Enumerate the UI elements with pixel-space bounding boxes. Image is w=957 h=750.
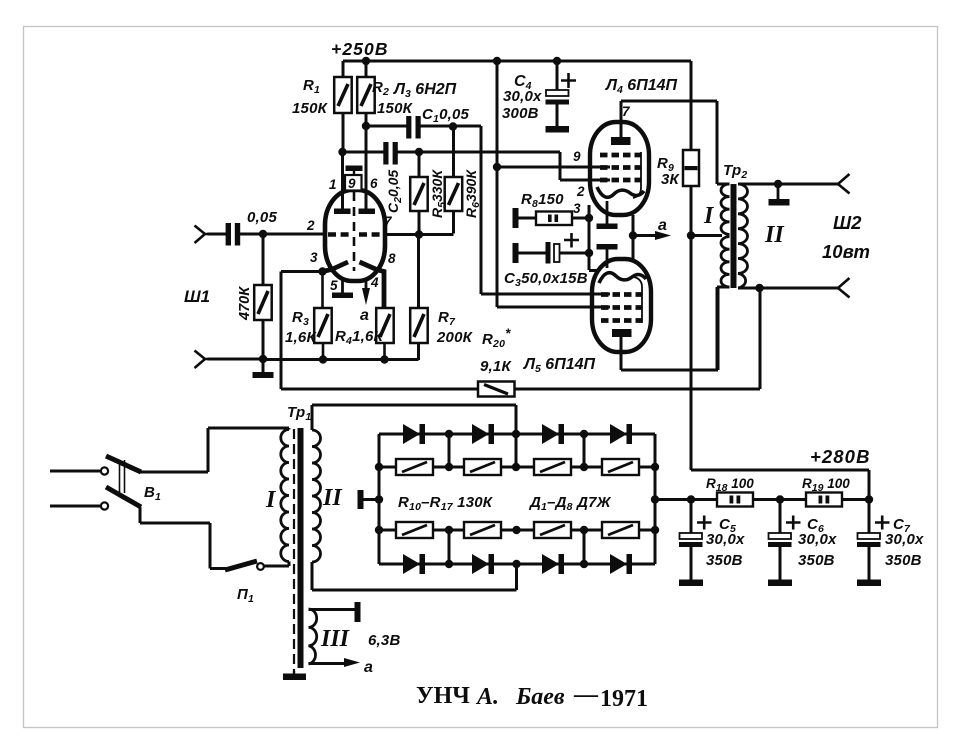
diode D2 xyxy=(472,424,494,444)
output connector arrow bottom xyxy=(838,278,850,298)
svg-text:2: 2 xyxy=(576,184,585,199)
wire filter line xyxy=(655,498,717,501)
bridge nodes top xyxy=(375,430,659,471)
resistor R8 150 xyxy=(513,208,590,228)
anode plate L4 xyxy=(611,137,631,145)
svg-text:R7: R7 xyxy=(438,309,456,328)
ground pin5 xyxy=(332,280,353,298)
wire pin9 L4 xyxy=(497,166,610,169)
tube U Л5 6П14П envelope xyxy=(592,259,651,352)
node R1-C2 junction xyxy=(338,148,346,156)
wire screen feed vertical xyxy=(497,61,610,307)
bridge resistor row2 wire xyxy=(379,529,655,532)
ground secondary xyxy=(769,184,790,206)
wire secondary bottom xyxy=(738,287,838,290)
resistor R1 150K xyxy=(334,61,352,152)
node rail-screen xyxy=(493,57,501,65)
bridge right vertical xyxy=(654,434,657,564)
node 470K-common xyxy=(259,355,267,363)
resistor R14 xyxy=(396,522,433,538)
node screen-pin9 xyxy=(493,163,501,171)
svg-text:R1: R1 xyxy=(303,77,320,96)
capacitor C1 0,05 xyxy=(366,116,481,139)
svg-text:3: 3 xyxy=(573,201,581,216)
svg-text:9,1К: 9,1К xyxy=(480,358,512,375)
svg-text:R3: R3 xyxy=(292,309,309,328)
pin labels L4 xyxy=(573,104,631,216)
capacitor C4 30,0x300B xyxy=(546,61,577,126)
svg-text:10вт: 10вт xyxy=(822,241,870,262)
svg-text:II: II xyxy=(322,485,343,511)
switch B1 link dashes xyxy=(120,460,125,493)
svg-text:Д1–Д8 Д7Ж: Д1–Д8 Д7Ж xyxy=(528,494,612,513)
wire mains bottom xyxy=(50,505,100,508)
grid rows L5 xyxy=(601,295,642,321)
svg-text:Тр2: Тр2 xyxy=(723,162,747,181)
wire secondary II top xyxy=(312,405,516,430)
svg-text:R20*: R20* xyxy=(482,326,511,350)
bridge nodes bottom xyxy=(375,526,659,568)
resistor R19 100 xyxy=(806,493,869,507)
svg-text:150К: 150К xyxy=(292,100,329,117)
transformer Tp1 core bar xyxy=(298,428,304,668)
output connector arrow top xyxy=(838,174,850,194)
wire pin7 anode L4 xyxy=(621,101,717,140)
svg-text:350В: 350В xyxy=(885,552,922,569)
resistor R20 9,1K xyxy=(478,382,515,397)
capacitor C5 30,0x350B xyxy=(679,500,712,581)
input connector arrow bottom xyxy=(195,351,209,369)
svg-text:6,3В: 6,3В xyxy=(368,632,401,649)
fuse P1 circle xyxy=(257,563,264,570)
bridge bottom diode row wire xyxy=(379,563,655,566)
svg-text:5: 5 xyxy=(330,278,338,293)
svg-text:1971: 1971 xyxy=(600,686,648,712)
ground C7 xyxy=(857,580,881,587)
ground input xyxy=(253,359,274,378)
svg-text:6: 6 xyxy=(370,176,378,191)
transformer Tp1 secondary II winding xyxy=(312,430,321,562)
resistor 470K xyxy=(254,234,272,359)
svg-text:А.: А. xyxy=(475,684,499,710)
svg-text:8: 8 xyxy=(388,251,396,266)
svg-text:II: II xyxy=(764,222,785,248)
svg-text:4: 4 xyxy=(370,275,379,290)
shield dashed line xyxy=(353,192,356,271)
resistor R6 390K xyxy=(445,126,463,234)
ground C4 xyxy=(546,126,570,133)
transformer Tp1 core dashed xyxy=(293,429,295,671)
svg-text:30,0х: 30,0х xyxy=(503,88,542,105)
diode D3 xyxy=(542,424,564,444)
ground C6 xyxy=(768,580,792,587)
svg-text:III: III xyxy=(320,626,351,652)
diode D5 xyxy=(403,554,425,574)
svg-text:1: 1 xyxy=(329,177,337,192)
svg-text:30,0х: 30,0х xyxy=(885,531,924,548)
node C5 xyxy=(687,495,695,503)
heater pin4 arrow a xyxy=(362,280,370,305)
wire plus280 xyxy=(691,470,869,500)
svg-text:R8150: R8150 xyxy=(521,191,564,210)
bridge mid vertical bottom left xyxy=(448,530,451,564)
svg-text:I: I xyxy=(703,203,715,229)
node rail-C4 xyxy=(553,57,561,65)
tube U Л3 6Н2П envelope xyxy=(325,190,385,281)
bridge left vertical xyxy=(378,434,381,564)
resistor R5 330K xyxy=(410,152,428,235)
node R3-common xyxy=(319,355,327,363)
node C6 xyxy=(776,495,784,503)
svg-text:С10,05: С10,05 xyxy=(422,106,470,125)
terminal circle top xyxy=(101,467,108,474)
wire heater link a xyxy=(632,215,635,261)
node cathode1-R3 xyxy=(318,267,326,275)
svg-text:Баев: Баев xyxy=(515,684,565,710)
transformer Tp2 secondary II winding xyxy=(738,184,748,288)
capacitor C6 30,0x350B xyxy=(768,500,801,581)
wire mains top xyxy=(50,470,100,473)
svg-text:Л5 6П14П: Л5 6П14П xyxy=(523,356,595,375)
bridge AC1 vertical xyxy=(515,405,518,467)
anode plate L5 xyxy=(612,329,632,337)
diode D1 xyxy=(403,424,425,444)
resistor R18 100 xyxy=(717,493,806,507)
input connector arrow top xyxy=(195,226,209,244)
svg-text:I: I xyxy=(265,487,277,513)
transformer Tp2 primary I winding xyxy=(721,184,730,287)
wire +250V rail xyxy=(343,60,691,63)
bridge top diode row wire xyxy=(379,433,655,436)
wire switch bottom to fuse xyxy=(140,507,226,569)
wire secondary II bottom xyxy=(312,562,517,590)
svg-text:a: a xyxy=(364,659,373,676)
bridge resistor row1 wire xyxy=(379,466,655,469)
resistor R13 xyxy=(602,459,639,475)
wire primary top xyxy=(717,101,730,184)
svg-text:R19 100: R19 100 xyxy=(802,476,850,494)
wire winding III bottom xyxy=(309,662,346,665)
node C2-R5 xyxy=(415,148,423,156)
svg-text:УНЧ: УНЧ xyxy=(416,683,470,709)
svg-text:350В: 350В xyxy=(798,552,835,569)
anode plate pin1 xyxy=(334,152,351,214)
grid dashed row xyxy=(328,232,382,237)
node secondary ground xyxy=(774,180,782,188)
diode D4 xyxy=(610,424,632,444)
ground bridge minus xyxy=(358,490,380,509)
transformer Tp1 primary I winding xyxy=(281,428,289,562)
capacitor C2 0,05 xyxy=(343,142,561,165)
svg-text:R18 100: R18 100 xyxy=(706,476,754,494)
bridge mid vertical top right xyxy=(583,434,586,467)
wire winding III top xyxy=(309,608,356,611)
transformer Tp1 winding III xyxy=(309,609,317,664)
wire triode2 grid (pin7) xyxy=(385,233,454,236)
svg-text:Л3 6Н2П: Л3 6Н2П xyxy=(393,81,457,100)
svg-text:+280В: +280В xyxy=(810,446,871,467)
terminal circle bottom xyxy=(101,502,108,509)
node bridge plus xyxy=(651,495,659,503)
svg-text:300В: 300В xyxy=(502,105,539,122)
svg-text:R2: R2 xyxy=(372,79,389,98)
node rail-R2 xyxy=(362,57,370,65)
resistor R10 xyxy=(396,459,433,475)
svg-text:30,0х: 30,0х xyxy=(706,531,745,548)
svg-text:Л4 6П14П: Л4 6П14П xyxy=(605,77,677,96)
svg-text:9: 9 xyxy=(348,176,356,191)
tube U Л4 6П14П envelope xyxy=(590,122,649,215)
svg-text:R10–R17 130К: R10–R17 130К xyxy=(398,494,494,513)
ground shield pin9 top bar xyxy=(346,166,363,176)
cathode wave L4 xyxy=(597,187,644,197)
fuse P1 blade xyxy=(225,561,257,570)
svg-text:7: 7 xyxy=(622,104,631,119)
capacitor C7 30,0x350B xyxy=(857,500,890,581)
wire anode L5 to transformer xyxy=(621,288,718,370)
cathode pin8 with lead xyxy=(360,262,385,308)
switch B1 blade top xyxy=(106,456,141,472)
ground C5 xyxy=(679,580,703,587)
svg-text:С350,0х15В: С350,0х15В xyxy=(504,270,588,289)
diode D8 xyxy=(610,554,632,574)
svg-text:—: — xyxy=(573,682,599,708)
svg-text:R6390К: R6390К xyxy=(463,169,482,218)
resistor R12 xyxy=(534,459,571,475)
wire center tap xyxy=(691,234,722,237)
cathode bar L5 xyxy=(597,244,618,268)
svg-text:3К: 3К xyxy=(661,171,681,188)
svg-text:+250В: +250В xyxy=(331,39,389,59)
svg-text:350В: 350В xyxy=(706,552,743,569)
svg-text:30,0х: 30,0х xyxy=(798,531,837,548)
svg-text:Тр1: Тр1 xyxy=(287,404,311,423)
wire secondary top xyxy=(738,183,838,186)
svg-text:Ш2: Ш2 xyxy=(833,212,862,233)
svg-text:В1: В1 xyxy=(144,484,161,503)
node C3-cathode xyxy=(585,249,593,257)
grid rows L4 xyxy=(600,155,641,180)
svg-text:150К: 150К xyxy=(377,100,414,117)
resistor R15 xyxy=(464,522,501,538)
resistor R9 3K xyxy=(683,61,699,470)
wire primary bottom xyxy=(717,287,730,370)
node R2-C1 junction xyxy=(362,122,370,130)
ground Tp1 core xyxy=(283,671,306,680)
transformer Tp2 core xyxy=(731,184,737,288)
node C1-R6 xyxy=(449,122,457,130)
node input-470K xyxy=(259,230,267,238)
svg-text:a: a xyxy=(658,217,667,234)
wire switch top to Tp1 xyxy=(140,428,289,472)
bridge mid vertical bottom right xyxy=(583,530,586,564)
resistor R2 150K xyxy=(357,61,375,126)
bridge mid vertical top left xyxy=(448,434,451,467)
svg-text:3: 3 xyxy=(310,250,318,265)
switch B1 blade bottom xyxy=(106,487,141,507)
svg-text:7: 7 xyxy=(384,214,393,229)
internal beam line L5 xyxy=(634,277,642,323)
svg-text:470К: 470К xyxy=(237,286,253,321)
arrow heater a xyxy=(633,231,671,240)
svg-text:1,6К: 1,6К xyxy=(285,329,317,346)
node secondary feedback xyxy=(755,284,763,292)
arrow heater a bottom xyxy=(344,658,360,667)
wire fuse to winding xyxy=(264,562,289,567)
cathode pin3 with lead xyxy=(323,262,349,272)
wire feedback loop xyxy=(281,272,760,390)
wire grid L5 from C1 xyxy=(481,126,610,294)
resistor R16 xyxy=(534,522,571,538)
svg-text:a: a xyxy=(360,307,369,324)
resistor R17 xyxy=(602,522,639,538)
capacitor C3 50,0x15B xyxy=(513,233,590,264)
capacitor input 0,05 xyxy=(208,223,326,246)
svg-text:С20,05: С20,05 xyxy=(385,170,404,213)
node heater a xyxy=(629,231,637,239)
resistor R11 xyxy=(464,459,501,475)
diode D6 xyxy=(472,554,494,574)
svg-text:2: 2 xyxy=(306,218,315,233)
pin 9 box xyxy=(345,175,362,191)
svg-text:200К: 200К xyxy=(436,329,474,346)
node C7 plus280 xyxy=(865,495,873,503)
wire cathode bus xyxy=(589,205,597,271)
node R8-cathode xyxy=(585,214,593,222)
node R4-common xyxy=(380,355,388,363)
diode D7 xyxy=(542,554,564,574)
node bridge minus xyxy=(375,495,383,503)
resistor R7 200K xyxy=(410,235,428,361)
internal beam line L4 xyxy=(633,152,641,198)
wire common bottom line xyxy=(208,358,419,362)
cathode wave L5 xyxy=(599,273,646,283)
resistor R3 1,6K xyxy=(314,272,332,360)
svg-text:R41,6К: R41,6К xyxy=(335,328,385,347)
ground winding III terminal xyxy=(355,602,361,622)
svg-text:0,05: 0,05 xyxy=(247,209,277,226)
node center tap xyxy=(687,231,695,239)
anode plate pin6 xyxy=(359,126,376,214)
pin labels L3 xyxy=(306,176,396,293)
resistor R4 1,6K xyxy=(376,308,394,360)
cathode stem and bar L4 xyxy=(597,201,618,229)
node grid-R5 xyxy=(415,230,423,238)
wire grid L4 from C2 xyxy=(560,152,610,180)
svg-text:Ш1: Ш1 xyxy=(184,287,210,306)
svg-text:П1: П1 xyxy=(237,586,254,605)
svg-text:9: 9 xyxy=(573,149,581,164)
